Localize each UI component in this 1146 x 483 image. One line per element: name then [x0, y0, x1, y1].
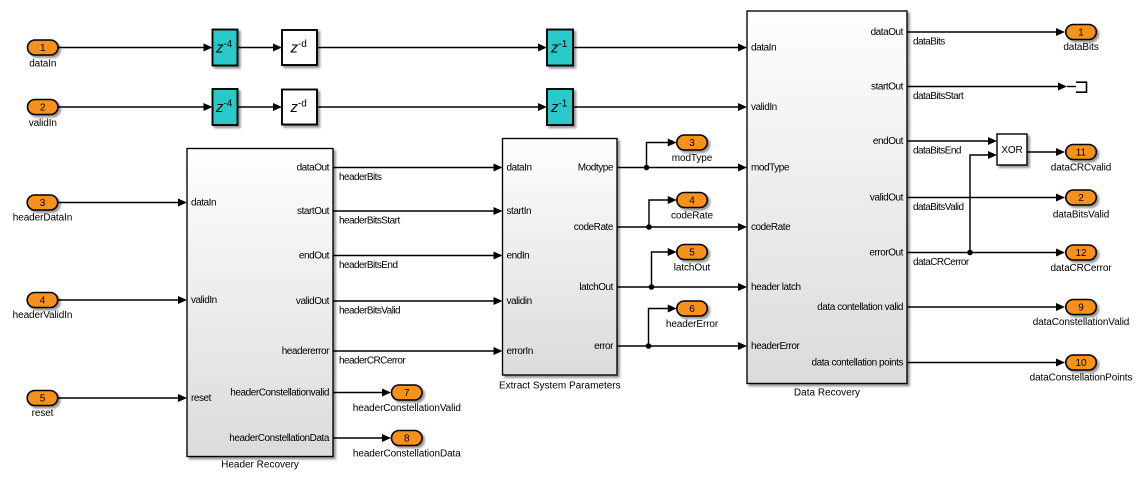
wire validOut to outport 2 (dataBitsValid)	[907, 194, 1065, 202]
wire Z-4 to Z-d (row 2)	[238, 103, 283, 111]
svg-text:1: 1	[40, 43, 46, 54]
svg-text:Data Recovery: Data Recovery	[794, 388, 860, 399]
svg-text:dataConstellationPoints: dataConstellationPoints	[1030, 373, 1133, 384]
wire headerConstellationvalid to outport 7	[333, 389, 391, 397]
logic block XOR	[997, 134, 1027, 165]
signal label dataBitsValid	[913, 202, 963, 213]
wire endOut/endIn (headerBitsEnd)	[333, 252, 503, 260]
svg-text:-4: -4	[223, 98, 232, 109]
svg-text:dataCRCerror: dataCRCerror	[913, 257, 970, 268]
svg-text:data contellation valid: data contellation valid	[817, 302, 903, 313]
svg-text:headerError: headerError	[666, 319, 719, 330]
svg-text:latchOut: latchOut	[674, 263, 711, 274]
svg-text:validIn: validIn	[191, 295, 217, 306]
wire error/headerError	[617, 342, 747, 350]
svg-text:modType: modType	[751, 163, 790, 174]
wire endOut to XOR (dataBitsEnd)	[907, 137, 997, 145]
svg-text:error: error	[594, 341, 614, 352]
wire headerValidIn to Header Recovery	[58, 296, 187, 304]
svg-text:headerBits: headerBits	[339, 172, 382, 183]
svg-text:dataBits: dataBits	[913, 37, 945, 48]
wire data contellation points to outport 10	[907, 359, 1065, 367]
junction on Modtype/modType wire	[644, 165, 650, 171]
signal label headerBits	[339, 172, 382, 183]
svg-text:dataCRCvalid: dataCRCvalid	[1051, 163, 1112, 174]
branch wire to outport 5	[652, 248, 677, 287]
svg-text:headerConstellationvalid: headerConstellationvalid	[230, 388, 329, 399]
svg-text:dataIn: dataIn	[751, 43, 776, 54]
svg-text:startOut: startOut	[297, 206, 330, 217]
signal label headerCRCerror	[339, 356, 406, 367]
outport 2 dataBitsValid	[1053, 190, 1109, 221]
signal label headerBitsStart	[339, 216, 400, 227]
svg-text:4: 4	[40, 296, 46, 307]
svg-text:header latch: header latch	[751, 282, 801, 293]
outport 7 headerConstellationValid	[353, 385, 461, 414]
inport 1 dataIn	[28, 40, 59, 70]
svg-text:dataConstellationValid: dataConstellationValid	[1033, 317, 1130, 328]
svg-text:2: 2	[40, 103, 46, 114]
outport 10 dataConstellationPoints	[1030, 355, 1133, 384]
svg-text:headerValidIn: headerValidIn	[13, 310, 73, 321]
svg-text:headerError: headerError	[751, 341, 801, 352]
svg-text:validOut: validOut	[296, 296, 330, 307]
signal label headerBitsValid	[339, 306, 400, 317]
outport 12 dataCRCerror	[1050, 245, 1112, 274]
outport 1 dataBits	[1063, 25, 1098, 54]
svg-text:dataBitsStart: dataBitsStart	[913, 91, 964, 102]
svg-text:12: 12	[1075, 248, 1087, 259]
svg-text:latchOut: latchOut	[579, 282, 613, 293]
wire Modtype/modType	[617, 164, 747, 172]
svg-text:headerBitsValid: headerBitsValid	[339, 306, 400, 317]
wire Z-d to Z-1 (row 2)	[317, 103, 547, 111]
inport 2 validIn	[28, 100, 59, 130]
svg-text:validIn: validIn	[29, 118, 57, 129]
label Extract System Parameters	[499, 381, 621, 392]
wire data contellation valid to outport 9	[907, 303, 1065, 311]
junction on codeRate/codeRate wire	[646, 224, 652, 230]
svg-text:dataBitsValid: dataBitsValid	[1053, 210, 1109, 221]
svg-text:startOut: startOut	[871, 82, 904, 93]
inport 4 headerValidIn	[13, 293, 73, 322]
subsystem Data Recovery	[747, 11, 907, 384]
svg-text:5: 5	[689, 248, 695, 259]
wire headererror/errorIn (headerCRCerror)	[333, 347, 503, 355]
terminator dataBitsStart	[1067, 82, 1087, 92]
junction on latchOut/header latch wire	[649, 284, 655, 290]
svg-text:dataIn: dataIn	[191, 198, 216, 209]
wire Z-1 to Data Recovery validIn	[573, 103, 747, 111]
svg-text:dataCRCerror: dataCRCerror	[1050, 263, 1112, 274]
svg-text:-1: -1	[558, 39, 567, 50]
wire Z-d to Z-1 (row 1)	[317, 44, 547, 52]
svg-text:validOut: validOut	[870, 193, 904, 204]
svg-text:dataOut: dataOut	[871, 27, 904, 38]
svg-text:1: 1	[1078, 28, 1084, 39]
svg-text:data contellation points: data contellation points	[812, 358, 904, 369]
svg-text:-d: -d	[298, 98, 307, 109]
svg-text:2: 2	[1078, 193, 1084, 204]
svg-text:5: 5	[40, 394, 46, 405]
svg-text:headerBitsStart: headerBitsStart	[339, 216, 400, 227]
label Header Recovery	[221, 460, 299, 471]
svg-text:Extract System Parameters: Extract System Parameters	[499, 381, 621, 392]
svg-text:-d: -d	[298, 39, 307, 50]
svg-text:codeRate: codeRate	[574, 222, 614, 233]
signal label headerBitsEnd	[339, 260, 397, 271]
svg-text:-1: -1	[558, 98, 567, 109]
svg-text:Header Recovery: Header Recovery	[221, 460, 299, 471]
outport 3 modType	[672, 135, 713, 164]
label Data Recovery	[794, 388, 860, 399]
svg-text:dataIn: dataIn	[507, 163, 532, 174]
outport 8 headerConstellationData	[353, 431, 461, 460]
inport 3 headerDataIn	[13, 195, 72, 224]
svg-text:endIn: endIn	[507, 251, 530, 262]
svg-text:headerConstellationData: headerConstellationData	[353, 449, 461, 460]
signal label dataBitsEnd	[913, 146, 961, 157]
wire dataOut/dataIn (headerBits)	[333, 164, 503, 172]
svg-text:headerDataIn: headerDataIn	[13, 213, 72, 224]
svg-text:reset: reset	[32, 408, 54, 419]
svg-text:endOut: endOut	[873, 136, 904, 147]
svg-text:codeRate: codeRate	[751, 222, 791, 233]
svg-text:11: 11	[1076, 148, 1087, 159]
svg-text:validin: validin	[507, 296, 532, 307]
branch wire dataCRCerror to XOR	[970, 151, 997, 253]
signal label dataBits	[913, 37, 945, 48]
svg-text:3: 3	[689, 138, 695, 149]
wire latchOut/header latch	[617, 283, 747, 291]
svg-text:reset: reset	[191, 393, 212, 404]
svg-text:3: 3	[40, 198, 46, 209]
wire validIn to Z-4 delay	[58, 103, 213, 111]
wire headerDataIn to Header Recovery	[58, 199, 187, 207]
wire reset to Header Recovery	[58, 394, 187, 402]
svg-text:errorIn: errorIn	[507, 346, 533, 357]
wire validOut/validin (headerBitsValid)	[333, 297, 503, 305]
inport 5 reset	[27, 391, 58, 420]
wire dataIn to Z-4 delay	[58, 44, 213, 52]
wire Z-1 to Data Recovery dataIn	[573, 44, 747, 52]
outport 9 dataConstellationValid	[1033, 300, 1130, 329]
svg-text:errorOut: errorOut	[869, 248, 903, 259]
junction on error/headerError wire	[646, 343, 652, 349]
wire XOR to outport 11 (dataCRCvalid)	[1027, 148, 1065, 156]
svg-text:4: 4	[689, 196, 695, 207]
svg-text:dataBitsEnd: dataBitsEnd	[913, 146, 961, 157]
branch wire to outport 4	[649, 196, 677, 227]
svg-text:headererror: headererror	[282, 346, 330, 357]
wire codeRate/codeRate	[617, 223, 747, 231]
wire Z-4 to Z-d (row 1)	[238, 44, 283, 52]
signal label dataCRCerror	[913, 257, 970, 268]
signal label dataBitsStart	[913, 91, 964, 102]
svg-text:headerConstellationValid: headerConstellationValid	[353, 403, 461, 414]
outport 6 headerError	[666, 301, 719, 330]
svg-text:endOut: endOut	[299, 251, 330, 262]
delay block Z-1 (row 1)	[547, 30, 573, 66]
branch wire to outport 3	[647, 139, 677, 168]
svg-text:startIn: startIn	[507, 206, 532, 217]
wire startOut to terminator (dataBitsStart)	[907, 83, 1067, 91]
delay block Z-d (row 2)	[282, 90, 317, 125]
svg-text:modType: modType	[672, 153, 713, 164]
svg-text:headerCRCerror: headerCRCerror	[339, 356, 406, 367]
svg-text:validIn: validIn	[751, 102, 777, 113]
delay block Z-4 (row 2)	[213, 89, 238, 125]
wire errorOut to outport 12 (dataCRCerror)	[907, 249, 1065, 257]
svg-text:dataIn: dataIn	[29, 59, 56, 70]
delay block Z-4 (row 1)	[213, 30, 238, 66]
svg-text:Modtype: Modtype	[578, 163, 614, 174]
outport 5 latchOut	[674, 245, 711, 274]
svg-text:9: 9	[1078, 303, 1084, 314]
subsystem Header Recovery	[187, 149, 333, 457]
wire dataOut to outport 1 (dataBits)	[907, 28, 1065, 36]
svg-text:dataBits: dataBits	[1063, 42, 1098, 53]
svg-text:dataOut: dataOut	[297, 163, 330, 174]
svg-text:-4: -4	[223, 39, 232, 50]
svg-text:10: 10	[1075, 358, 1087, 369]
svg-text:6: 6	[689, 304, 695, 315]
subsystem Extract System Parameters	[503, 139, 618, 376]
outport 4 codeRate	[671, 193, 714, 222]
wire startOut/startIn (headerBitsStart)	[333, 207, 503, 215]
outport 11 dataCRCvalid	[1051, 145, 1112, 174]
delay block Z-d (row 1)	[282, 30, 317, 65]
wire headerConstellationData to outport 8	[333, 434, 391, 442]
svg-text:8: 8	[404, 434, 410, 445]
svg-text:headerBitsEnd: headerBitsEnd	[339, 260, 397, 271]
junction on dataCRCerror wire	[967, 250, 973, 256]
svg-text:7: 7	[404, 388, 410, 399]
delay block Z-1 (row 2)	[547, 89, 573, 125]
svg-text:codeRate: codeRate	[671, 211, 714, 222]
svg-text:dataBitsValid: dataBitsValid	[913, 202, 963, 213]
branch wire to outport 6	[649, 305, 677, 347]
svg-text:headerConstellationData: headerConstellationData	[229, 433, 330, 444]
svg-text:XOR: XOR	[1001, 145, 1022, 156]
